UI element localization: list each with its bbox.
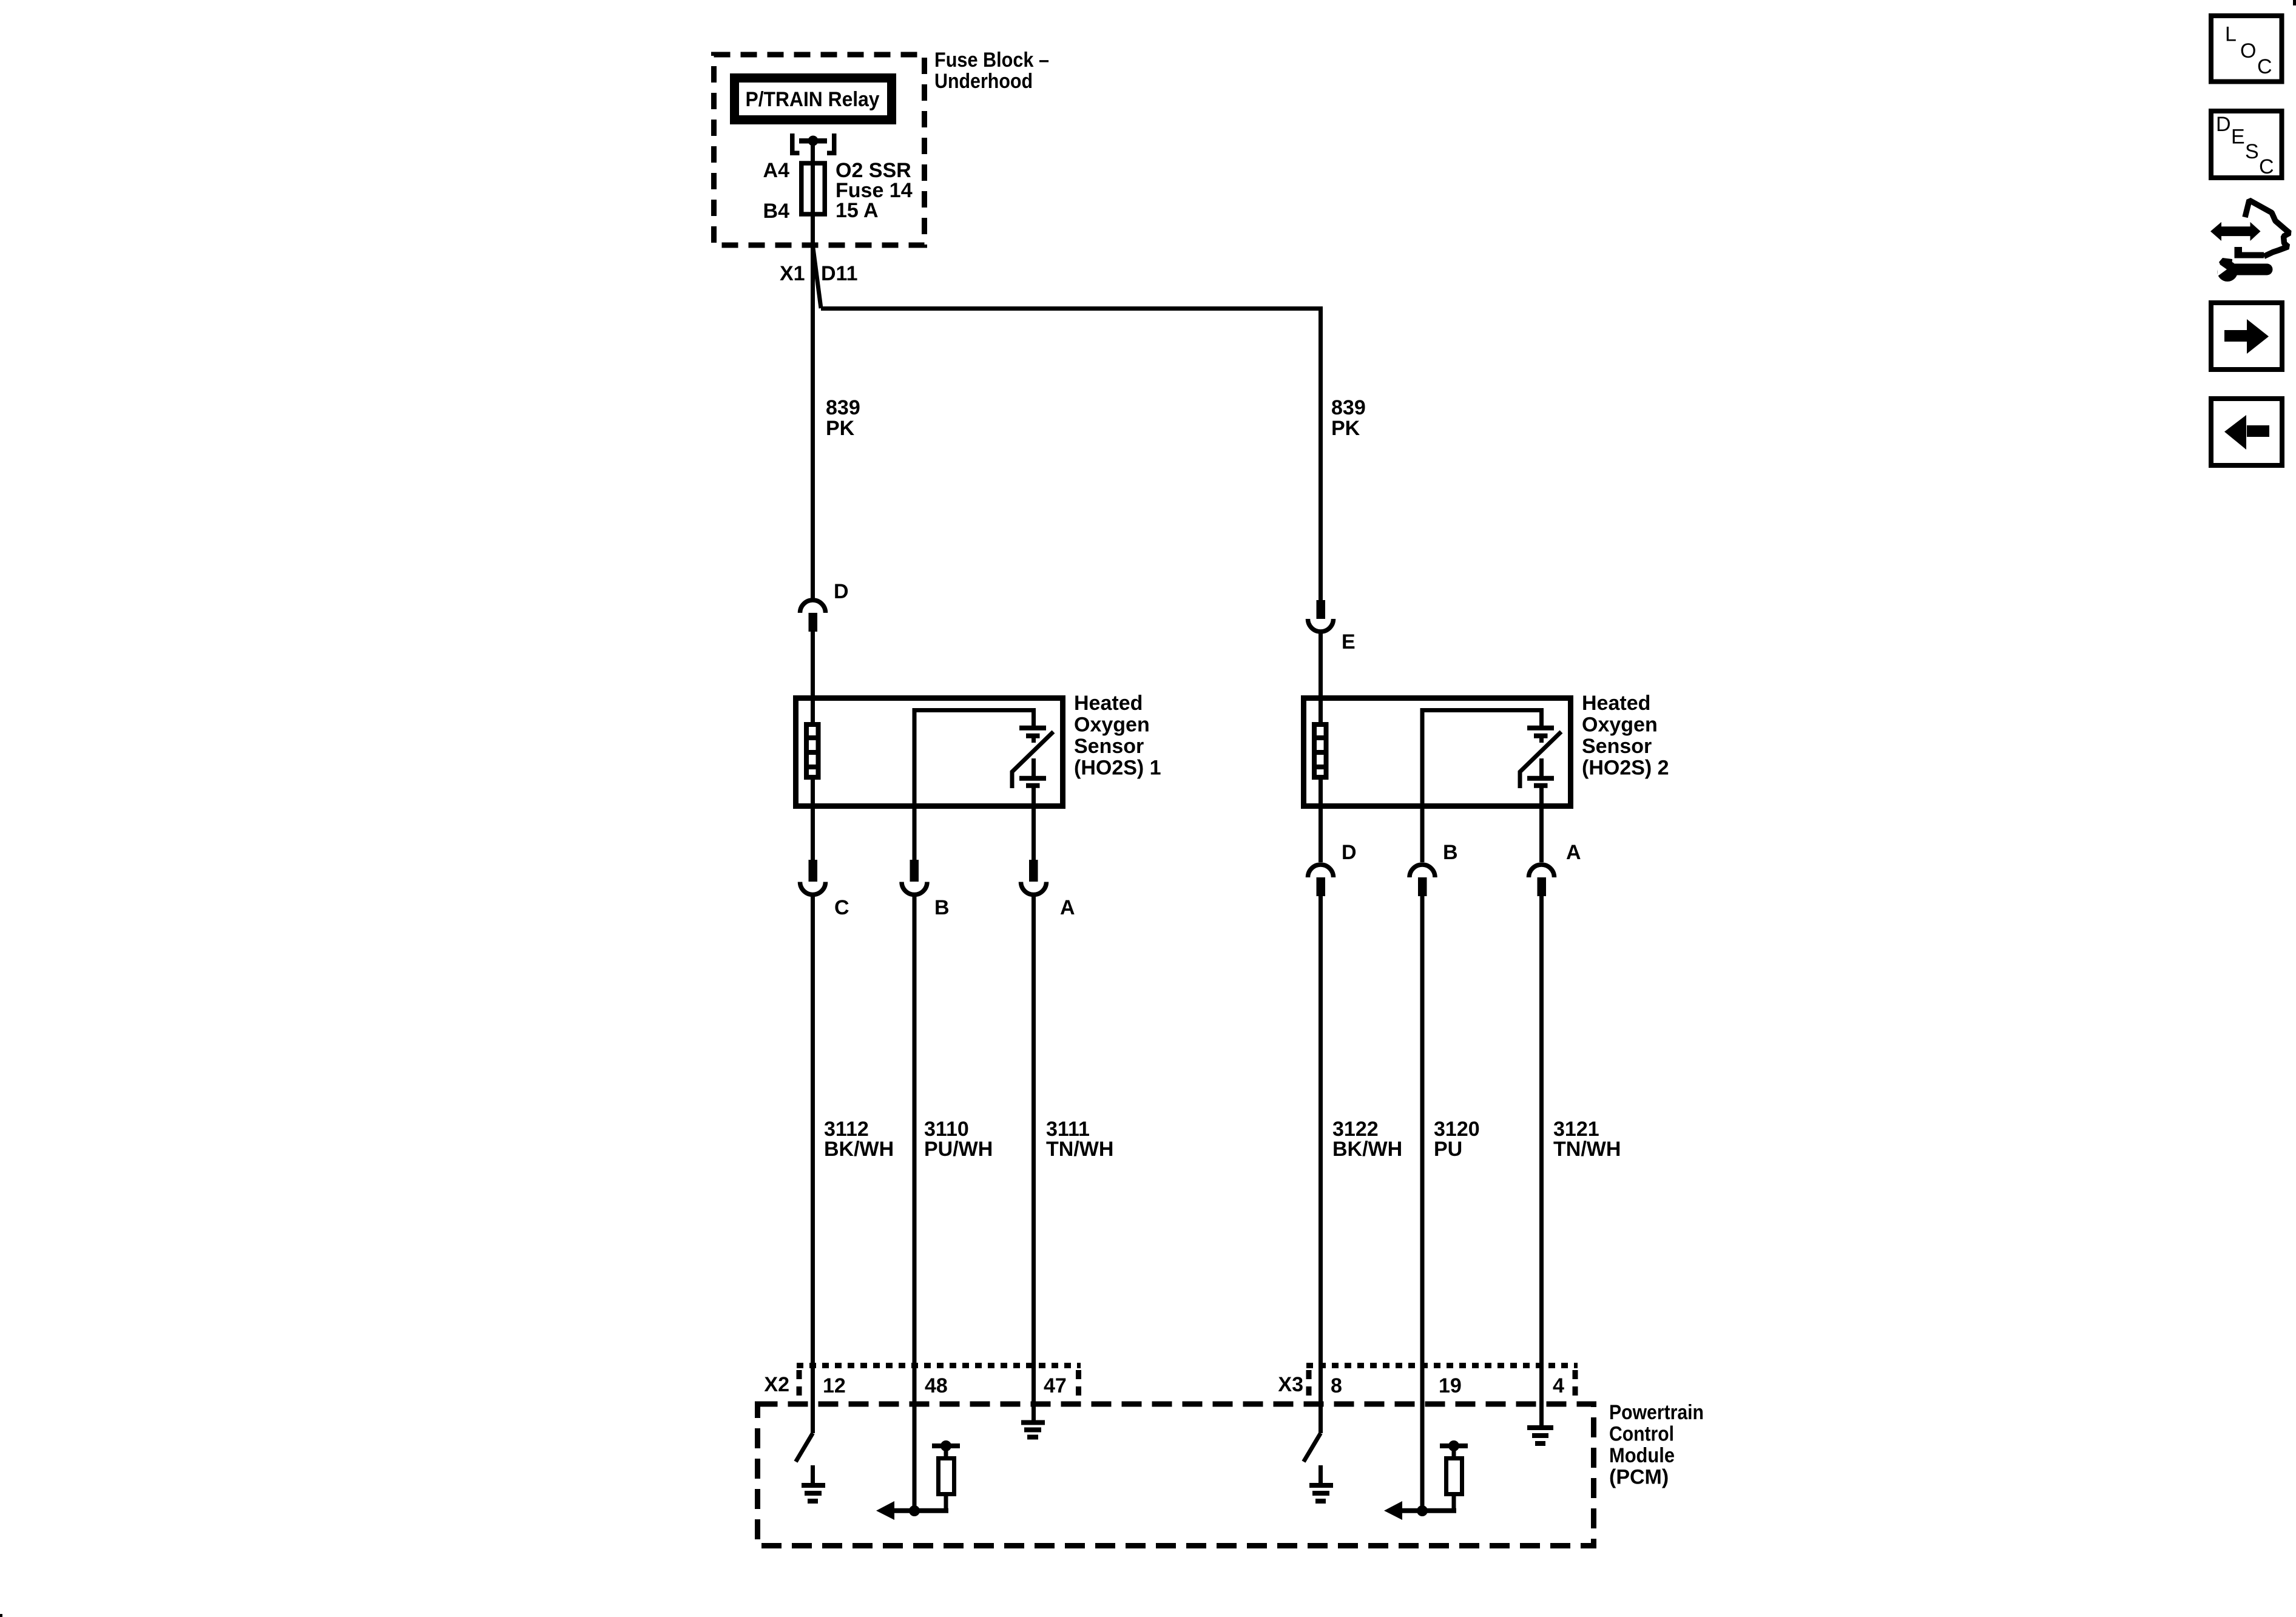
svg-text:B: B: [1443, 841, 1458, 864]
svg-text:E: E: [2231, 126, 2245, 149]
svg-text:TN/WH: TN/WH: [1553, 1138, 1621, 1161]
svg-text:PU: PU: [1434, 1138, 1462, 1161]
svg-text:L: L: [2225, 23, 2237, 46]
svg-text:A4: A4: [763, 159, 790, 182]
svg-text:839: 839: [826, 396, 860, 419]
svg-text:4: 4: [1553, 1374, 1564, 1397]
svg-text:C: C: [2259, 155, 2274, 178]
svg-text:X3: X3: [1278, 1373, 1303, 1396]
svg-text:D: D: [1342, 841, 1357, 864]
svg-text:E: E: [1342, 630, 1356, 653]
svg-text:Control: Control: [1609, 1423, 1674, 1446]
svg-text:B4: B4: [763, 200, 790, 223]
svg-text:Underhood: Underhood: [934, 70, 1033, 93]
svg-text:(PCM): (PCM): [1609, 1466, 1669, 1489]
svg-text:(HO2S) 2: (HO2S) 2: [1582, 757, 1669, 780]
svg-text:839: 839: [1331, 396, 1366, 419]
svg-text:D11: D11: [821, 262, 858, 285]
svg-text:Sensor: Sensor: [1582, 735, 1652, 758]
svg-text:Oxygen: Oxygen: [1074, 714, 1150, 737]
svg-text:D: D: [2216, 113, 2231, 136]
svg-text:47: 47: [1044, 1374, 1067, 1397]
svg-text:PU/WH: PU/WH: [924, 1138, 993, 1161]
svg-text:PK: PK: [826, 417, 855, 440]
svg-text:PK: PK: [1331, 417, 1360, 440]
svg-text:48: 48: [925, 1374, 948, 1397]
svg-text:Fuse Block –: Fuse Block –: [934, 49, 1049, 72]
svg-text:19: 19: [1439, 1374, 1462, 1397]
svg-text:BK/WH: BK/WH: [824, 1138, 894, 1161]
svg-text:X1: X1: [780, 262, 805, 285]
svg-text:Sensor: Sensor: [1074, 735, 1144, 758]
svg-text:O: O: [2240, 39, 2256, 62]
svg-text:(HO2S) 1: (HO2S) 1: [1074, 757, 1161, 780]
svg-text:P/TRAIN Relay: P/TRAIN Relay: [746, 88, 880, 111]
svg-text:D: D: [834, 580, 849, 603]
svg-text:A: A: [1060, 896, 1075, 919]
svg-text:BK/WH: BK/WH: [1332, 1138, 1402, 1161]
svg-text:C: C: [834, 896, 849, 919]
svg-text:Oxygen: Oxygen: [1582, 714, 1658, 737]
svg-text:Heated: Heated: [1582, 692, 1650, 715]
svg-text:15 A: 15 A: [836, 199, 879, 222]
svg-text:Module: Module: [1609, 1444, 1675, 1467]
svg-text:C: C: [2257, 55, 2272, 78]
svg-text:Powertrain: Powertrain: [1609, 1401, 1704, 1424]
svg-text:A: A: [1566, 841, 1581, 864]
svg-text:B: B: [934, 896, 950, 919]
svg-text:12: 12: [823, 1374, 846, 1397]
svg-text:Heated: Heated: [1074, 692, 1143, 715]
svg-text:X2: X2: [764, 1373, 789, 1396]
svg-text:8: 8: [1331, 1374, 1342, 1397]
svg-text:TN/WH: TN/WH: [1046, 1138, 1113, 1161]
svg-text:S: S: [2245, 140, 2259, 163]
